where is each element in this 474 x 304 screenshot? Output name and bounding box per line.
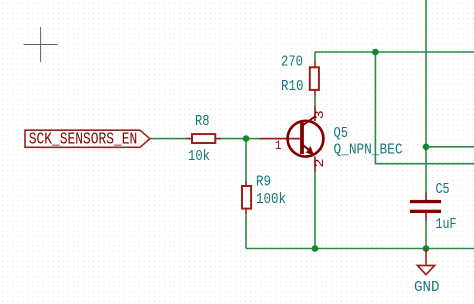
svg-text:GND: GND — [414, 279, 440, 296]
emitter diagonal — [303, 145, 312, 152]
svg-text:SCK_SENSORS_EN: SCK_SENSORS_EN — [29, 130, 138, 149]
svg-text:3: 3 — [312, 110, 327, 119]
collector pin — [314, 106, 316, 122]
svg-text:R8: R8 — [195, 113, 210, 130]
wire label tip to R8 — [150, 138, 190, 140]
svg-text:1: 1 — [275, 139, 282, 153]
transistor Q5 — [260, 106, 324, 173]
wire top rail to R10 — [314, 52, 316, 61]
emitter arrowhead — [306, 146, 314, 155]
svg-text:100k: 100k — [256, 191, 286, 208]
wire R8 to junction — [218, 138, 246, 140]
wire mid rail at y147 — [426, 146, 474, 148]
junction at mid rail — [423, 144, 430, 151]
svg-text:Q_NPN_BEC: Q_NPN_BEC — [334, 141, 403, 158]
top rail wire — [315, 51, 474, 53]
base pin — [260, 138, 301, 140]
svg-text:Q5: Q5 — [334, 125, 349, 142]
resistor R9 — [242, 182, 251, 214]
resistor R8 — [187, 134, 221, 143]
origin cross marker — [24, 27, 58, 62]
collector diagonal — [303, 117, 316, 126]
svg-text:C5: C5 — [436, 181, 450, 198]
base bar — [300, 123, 304, 155]
resistor R10 — [310, 61, 319, 96]
junction C5 bottom rail — [423, 245, 430, 252]
wire R10 to Q5 collector — [314, 95, 316, 106]
wire vertical at x426 top — [425, 0, 427, 193]
svg-text:10k: 10k — [188, 148, 210, 165]
wire R9 bottom to bottom rail — [245, 214, 247, 249]
svg-text:270: 270 — [281, 54, 303, 71]
svg-text:1uF: 1uF — [436, 216, 457, 233]
junction at R8/R9 node — [243, 135, 250, 142]
svg-text:R9: R9 — [256, 173, 271, 190]
body circle — [288, 121, 324, 157]
wire junction to Q5 base — [246, 138, 260, 140]
wire vertical at x375 — [375, 52, 474, 164]
bottom rail wire — [246, 248, 474, 250]
junction emitter bottom rail — [312, 245, 319, 252]
capacitor C5 — [410, 193, 441, 222]
svg-text:R10: R10 — [281, 78, 304, 95]
ground symbol — [417, 249, 434, 275]
wire junction down to R9 — [245, 139, 247, 183]
wire C5 bottom to bottom rail — [425, 221, 427, 249]
emitter pin — [314, 157, 316, 173]
wire Q5 emitter to bottom rail — [314, 172, 316, 249]
svg-text:2: 2 — [312, 159, 327, 168]
global label SCK_SENSORS_EN — [25, 130, 150, 149]
junction at top rail — [372, 49, 379, 56]
